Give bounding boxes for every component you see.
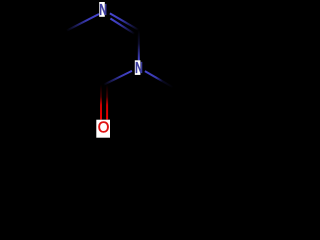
wire double bond C4=O right line — [106, 85, 108, 120]
wire bond C2-N3 — [138, 30, 140, 60]
wire bond N3-C4 — [104, 71, 132, 85]
node N1 label box — [99, 2, 105, 17]
node N3 label box — [135, 60, 141, 75]
svg-text:N: N — [99, 2, 107, 19]
svg-text:N: N — [135, 60, 143, 77]
wire double bond N1=C2 inner — [110, 19, 134, 34]
svg-text:O: O — [98, 119, 110, 136]
wire bond N3-CH3 — [145, 71, 173, 87]
wire double bond C4=O left line — [100, 85, 102, 120]
wire bond N1-C6 — [67, 14, 100, 31]
node O label box — [96, 120, 110, 138]
wire double bond N1=C2 outer — [110, 13, 139, 30]
